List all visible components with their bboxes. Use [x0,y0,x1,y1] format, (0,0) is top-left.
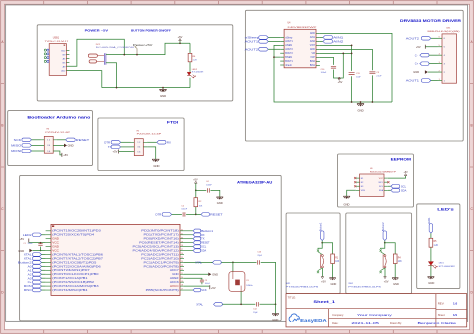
svg-text:BISEN: BISEN [285,57,292,59]
block POWER ~5V / BUTTON POWER ON/OFF [37,25,233,101]
svg-text:XTAL: XTAL [24,257,32,261]
node AOUT1 flag [406,79,438,83]
svg-text:18: 18 [181,285,183,287]
power +5V [338,78,343,84]
svg-text:PT36457HB3-0LFS: PT36457HB3-0LFS [348,287,382,289]
svg-text:VCC: VCC [52,242,59,245]
svg-text:C3: C3 [205,280,207,282]
svg-text:ATMEGA328P-AU: ATMEGA328P-AU [237,181,273,185]
junction [195,214,197,216]
svg-text:LED's: LED's [437,208,454,212]
svg-text:REV:: REV: [438,302,445,306]
power +5V [184,285,216,290]
svg-text:+5V: +5V [19,237,24,241]
svg-text:LED2: LED2 [192,69,198,71]
node LED2 flag [23,233,46,237]
op-amp U5 ATMEGA328P-AU chip [46,224,184,295]
svg-text:EEPROM: EEPROM [391,158,412,162]
svg-text:RX: RX [201,233,205,237]
svg-text:GND: GND [310,33,315,35]
svg-text:1: 1 [439,79,440,81]
svg-text:AOUT1: AOUT1 [406,79,420,83]
svg-text:MISO: MISO [24,288,32,292]
block DRV8833 MOTOR DRIVER [245,10,463,141]
capacitor C11 10uF [349,73,362,79]
svg-text:PC1(ADC1/PCINT9): PC1(ADC1/PCINT9) [144,261,179,264]
svg-text:Button1: Button1 [318,222,322,231]
node SCK flag [14,138,41,142]
power +5V [384,277,389,284]
junction [351,101,353,103]
svg-text:(PCINT0/CLKO/ICP1)PB0: (PCINT0/CLKO/ICP1)PB0 [52,273,99,276]
wire VCP to C10 [320,53,343,78]
wire VINT to C11 node [320,44,352,46]
no-connect marks [354,177,356,179]
transistor SW2 pushbutton PT36457HB3-0LFS [380,243,387,277]
svg-text:ADC7: ADC7 [170,269,180,272]
svg-text:10K: 10K [199,205,203,207]
svg-text:DTR: DTR [156,213,162,217]
svg-text:+5V: +5V [178,35,183,39]
junction [372,101,374,103]
svg-text:27: 27 [181,249,183,251]
svg-text:C1: C1 [23,243,25,245]
svg-text:GND: GND [357,108,363,112]
node XTAL flag [195,260,221,264]
wire XTAL1 to crystal [184,261,235,263]
svg-text:30: 30 [181,237,183,239]
svg-text:AREF: AREF [170,277,179,280]
svg-text:KT-0603R: KT-0603R [192,72,204,74]
svg-text:M24C02-WMN6TP: M24C02-WMN6TP [370,171,397,173]
junction [40,242,42,244]
svg-text:GND: GND [428,281,434,285]
svg-text:BIN2: BIN2 [310,61,316,63]
transistor SW1 pushbutton PT36457HB3-0LFS [317,243,324,277]
svg-text:+5V: +5V [113,150,118,154]
svg-text:AIN1: AIN1 [310,36,316,39]
ground [216,197,223,205]
svg-text:TX: TX [201,237,205,241]
node Button2 flag [18,260,46,264]
node A3 flag [28,276,46,280]
svg-text:AIN2: AIN2 [310,40,316,43]
capacitor C10 100nF [321,66,337,74]
node C- flag [415,53,438,57]
svg-text:RESET: RESET [76,138,90,142]
svg-text:AOUT2: AOUT2 [285,48,293,51]
node RESET flag [196,213,223,217]
svg-text:25: 25 [181,257,183,259]
EasyEDA logo [289,314,327,323]
ground [147,147,159,168]
power +5V [113,150,131,154]
block SW1 button [286,213,340,294]
svg-text:PZ254V-12-6P: PZ254V-12-6P [45,132,71,134]
svg-text:1.2K: 1.2K [434,245,439,247]
svg-text:+5V: +5V [404,172,409,174]
svg-text:(PCINT6/XTAL1/TOSC1)PB6: (PCINT6/XTAL1/TOSC1)PB6 [52,253,104,256]
svg-text:SDA: SDA [379,189,384,192]
wire flag to junction [321,241,323,243]
svg-text:VCC: VCC [379,178,384,180]
wire DC1 bottom pin down [106,63,117,88]
svg-text:GND: GND [52,238,59,241]
svg-text:1/1: 1/1 [453,313,457,317]
wire to C13 [235,262,276,304]
ground [18,249,45,253]
svg-text:TITLE:: TITLE: [288,295,296,299]
svg-text:+5V: +5V [211,286,216,290]
svg-text:GND: GND [68,144,74,148]
svg-text:6: 6 [439,37,440,39]
block FTDI [98,118,184,171]
svg-text:DTR: DTR [104,140,110,144]
capacitor C1 100nF [23,243,42,251]
svg-text:100nF: 100nF [205,283,211,285]
power +5V [178,35,183,43]
connector CN1 B6B-PH-K-S(LF)(SN) [428,28,461,84]
node SCK flag [184,289,193,291]
svg-text:Company:: Company: [332,313,344,317]
svg-text:5: 5 [439,45,440,47]
junction [351,45,353,47]
svg-text:PB5(SCK/PCINT5): PB5(SCK/PCINT5) [146,289,179,292]
junction [321,242,323,244]
svg-text:GND: GND [272,318,278,322]
svg-text:VM: VM [312,53,316,55]
svg-text:Power+5V: Power+5V [133,43,153,47]
svg-text:PD0(RXD/PCINT16): PD0(RXD/PCINT16) [144,238,179,241]
svg-text:AOUT2: AOUT2 [245,47,259,51]
node Button2 flag [381,222,387,241]
svg-text:+5V: +5V [193,178,198,181]
power +5V [388,172,408,178]
svg-text:B6B-PH-K-S(LF)(SN): B6B-PH-K-S(LF)(SN) [428,31,461,33]
svg-text:Date:: Date: [332,321,338,325]
node MOSI flag [24,284,46,288]
junction [275,303,277,305]
node AOUT2 flag [245,47,281,51]
power +5V [19,237,45,243]
svg-text:19: 19 [181,281,183,283]
svg-text:22pF: 22pF [257,255,262,257]
junction [232,262,234,264]
svg-text:PC6(RESET/PCINT14): PC6(RESET/PCINT14) [139,242,179,245]
svg-text:VINT: VINT [310,45,316,47]
ground [159,88,166,99]
svg-text:TYPE-C-31-M-17: TYPE-C-31-M-17 [45,41,70,43]
svg-text:PC4(ADC4/SDA/PCINT12): PC4(ADC4/SDA/PCINT12) [133,249,179,252]
node C+ flag [28,280,46,284]
svg-text:24: 24 [181,261,183,263]
svg-text:22: 22 [181,269,183,271]
svg-text:SCL: SCL [201,245,207,249]
svg-text:AIN1: AIN1 [333,36,344,40]
svg-text:BOUT2: BOUT2 [285,53,293,55]
svg-text:GND: GND [52,246,59,249]
svg-text:POWER ~5V: POWER ~5V [85,28,108,32]
node nSleep flag [245,36,281,40]
power +5V [321,277,326,284]
svg-text:AVCC: AVCC [170,285,179,288]
svg-text:Sheet:: Sheet: [438,313,446,317]
svg-text:17: 17 [181,289,183,291]
node Button1 flag [184,229,214,233]
svg-text:GND: GND [153,164,159,168]
svg-text:B: B [471,124,473,128]
svg-text:2.2uF: 2.2uF [376,76,382,78]
svg-text:22pF: 22pF [253,312,258,314]
capacitor C13 22pF [257,252,262,265]
svg-text:C+: C+ [28,280,32,284]
svg-text:XTAL: XTAL [195,260,202,264]
ground [413,70,437,74]
node SCL flag [184,245,207,249]
node C+ flag [415,62,438,66]
power +5V [416,45,438,49]
svg-text:21: 21 [181,273,183,275]
block LED's [417,204,460,289]
ground [184,272,218,276]
block Bootloader Arduino nano [8,111,93,166]
svg-text:100nF: 100nF [28,243,34,245]
node SCL flag [388,184,407,188]
svg-text:GND: GND [344,202,350,206]
svg-text:BIN1: BIN1 [310,65,316,67]
svg-text:nFault: nFault [285,64,292,67]
svg-text:BUTTON POWER ON/OFF: BUTTON POWER ON/OFF [131,28,171,32]
junction [123,54,125,56]
svg-text:GND: GND [310,49,315,51]
svg-text:XTAL: XTAL [196,302,203,306]
svg-text:Button2: Button2 [18,260,32,264]
junction [273,56,275,58]
node XTAL flag [196,302,222,306]
svg-text:DC-005-20A_C1368744: DC-005-20A_C1368744 [96,46,135,49]
svg-text:(PCINT2/SS/OC1B)PB2: (PCINT2/SS/OC1B)PB2 [52,281,95,284]
node RX flag [147,140,171,144]
svg-text:A1: A1 [28,268,32,272]
svg-text:DRV8833 MOTOR DRIVER: DRV8833 MOTOR DRIVER [400,19,462,23]
ground [329,278,336,286]
node AOUT1 flag [245,40,281,44]
svg-text:PC5(ADC5/SCL/PCINT13): PC5(ADC5/SCL/PCINT13) [133,246,179,249]
svg-text:USB1: USB1 [53,36,60,39]
svg-text:VCP: VCP [310,57,315,59]
svg-text:LED1: LED1 [439,263,445,265]
svg-text:+5V: +5V [416,45,421,49]
node SDA flag [184,249,206,253]
capacitor C3 100nF [184,278,211,285]
svg-text:Your Company: Your Company [357,313,393,317]
node XTAL flag [24,257,46,261]
wire USB GND to bottom rail [66,71,101,88]
wire BISEN join [274,56,280,58]
USB connector USB1 TYPE-C-31-M-17 [44,36,69,75]
svg-text:RESET: RESET [210,213,223,217]
svg-text:A2: A2 [28,272,32,276]
svg-text:AOUT1: AOUT1 [285,40,293,43]
resistor R5 1.2K [429,233,439,261]
junction [136,54,138,56]
wire DTR to C2 to RESET node [172,213,196,215]
junction [351,53,353,55]
ground [357,102,364,112]
svg-text:Benjamin Clarke: Benjamin Clarke [418,321,458,325]
svg-text:LED1: LED1 [427,217,431,224]
svg-text:SCL: SCL [401,184,407,188]
junction [40,250,42,252]
svg-text:DRV8833PWP: DRV8833PWP [288,27,318,29]
svg-text:PC3(ADC3/PCINT11): PC3(ADC3/PCINT11) [141,253,179,256]
resistor R2 10K [194,190,203,214]
svg-text:Sheet_1: Sheet_1 [313,300,335,304]
block SW2 button [346,213,412,294]
svg-text:CN1: CN1 [446,28,451,30]
svg-text:AIN2: AIN2 [333,40,344,44]
title block [286,294,467,327]
svg-text:GND: GND [212,272,218,276]
capacitor C12 22pF [253,302,258,314]
svg-text:AOUT1: AOUT1 [245,40,259,44]
junction [116,87,118,89]
wire GND2 pin to C9 [320,49,373,102]
capacitor C9 2.2uF [369,72,382,78]
svg-text:KT-0603R: KT-0603R [439,266,456,268]
svg-text:nSleep: nSleep [245,36,261,40]
svg-text:20: 20 [181,277,183,279]
node Button1 flag [318,222,324,241]
node RESET flag [184,241,210,245]
svg-text:PD2(INT0/PCINT18): PD2(INT0/PCINT18) [141,230,179,233]
svg-text:16MHz: 16MHz [246,285,252,287]
connector H5 PZ254V-12-6P [131,130,163,155]
svg-text:4: 4 [439,54,440,56]
power +5V [57,151,68,157]
capacitor C2 100nF [181,205,187,216]
svg-text:+5V: +5V [338,80,343,84]
svg-text:Drawn By:: Drawn By: [390,321,402,325]
op-amp U6 M24C02-WMN6TP [356,168,397,196]
svg-text:GND: GND [172,273,179,276]
svg-text:C+: C+ [415,62,419,66]
svg-text:AOUT2: AOUT2 [406,36,420,40]
node TX flag [184,237,205,241]
svg-text:100nF: 100nF [181,209,187,211]
svg-text:SDA: SDA [401,188,407,192]
capacitor C4 100nF [206,181,212,192]
svg-text:RESET: RESET [201,241,210,245]
svg-text:SCK: SCK [14,138,22,142]
node TX flag [108,145,131,149]
node MOSI flag [11,149,40,153]
LED LED1 KT-0603R [428,262,455,269]
svg-text:GND: GND [413,70,419,74]
svg-text:Button1: Button1 [201,229,214,233]
svg-text:+5V: +5V [63,153,68,157]
node A1 flag [28,268,46,272]
svg-text:PD1(TXD/PCINT17): PD1(TXD/PCINT17) [144,234,179,237]
node A0 flag [28,264,46,268]
svg-text:(PCINT22/OC0A/AIN0)PD6: (PCINT22/OC0A/AIN0)PD6 [52,265,101,268]
svg-text:GND: GND [331,282,337,286]
wire VM node [320,52,352,54]
svg-text:(PCINT3/OC2A/MOSI)PB3: (PCINT3/OC2A/MOSI)PB3 [52,285,99,288]
junction [384,242,386,244]
node SW2 labels [348,283,382,289]
junction [195,190,197,192]
power +5V [193,178,198,190]
svg-text:3: 3 [439,62,440,64]
svg-text:100nF: 100nF [206,184,212,186]
resistor R6 1.2K [188,43,197,72]
svg-text:GND: GND [217,201,223,205]
svg-text:(PCINT7/XTAL2/TOSC2)PB7: (PCINT7/XTAL2/TOSC2)PB7 [52,257,104,260]
svg-text:MISO: MISO [11,143,22,147]
ground [343,190,356,206]
svg-text:28: 28 [181,245,183,247]
node A2 flag [28,272,46,276]
svg-text:C-: C- [415,53,418,57]
svg-text:MOSI: MOSI [24,284,32,288]
wire C11 branch [351,45,353,102]
svg-text:VCC: VCC [52,249,59,252]
wire GND pin to right rail [320,33,392,102]
wire USB VBUS to +5V rail [66,39,124,66]
svg-text:RX: RX [167,140,171,144]
node MISO flag [11,143,40,147]
svg-text:VSS: VSS [361,190,366,192]
node DTR flag [104,140,130,144]
node AIN1 flag [320,36,344,40]
svg-text:26: 26 [181,253,183,255]
svg-text:MOSI: MOSI [11,149,21,153]
wire bottom rail [102,87,190,89]
svg-text:1.2K: 1.2K [193,60,198,62]
svg-text:BOUT1: BOUT1 [285,61,293,63]
svg-text:(PCINT20/XCK/T0)PD4: (PCINT20/XCK/T0)PD4 [52,234,95,237]
svg-text:(PCINT19/OC2B/INT1)PD3: (PCINT19/OC2B/INT1)PD3 [52,230,101,233]
svg-text:XTAL: XTAL [24,253,32,257]
svg-text:Bootloader Arduino nano: Bootloader Arduino nano [27,115,90,119]
svg-text:SCK: SCK [201,288,207,292]
svg-text:+5V: +5V [321,279,326,283]
wire +5V to C4 to GND [196,190,220,197]
node AOUT2 flag [406,36,438,40]
svg-text:+5V: +5V [384,279,389,283]
node Power+5V flag [133,43,153,55]
connector H6 PZ254V-12-6P [41,129,72,154]
svg-text:10K: 10K [335,261,340,263]
wire left sense pins to rail [274,45,392,102]
ground [427,265,434,285]
junction [179,42,181,44]
svg-text:nSleep: nSleep [285,37,293,39]
resistor R1 10K [322,243,340,278]
svg-text:100nF: 100nF [321,72,327,74]
svg-text:(PCINT4/MISO)PB4: (PCINT4/MISO)PB4 [52,289,88,292]
svg-text:PC0(ADC0/PCINT8): PC0(ADC0/PCINT8) [144,265,179,268]
node SW1 labels [286,283,320,289]
svg-text:Button2: Button2 [381,222,385,231]
node MISO flag [24,288,46,292]
svg-text:PC2(ADC2/PCINT10): PC2(ADC2/PCINT10) [141,257,179,260]
svg-text:DC1: DC1 [96,44,101,46]
svg-text:2021-11-05: 2021-11-05 [351,321,380,325]
node SDA flag [388,188,407,192]
svg-text:B: B [1,124,3,128]
